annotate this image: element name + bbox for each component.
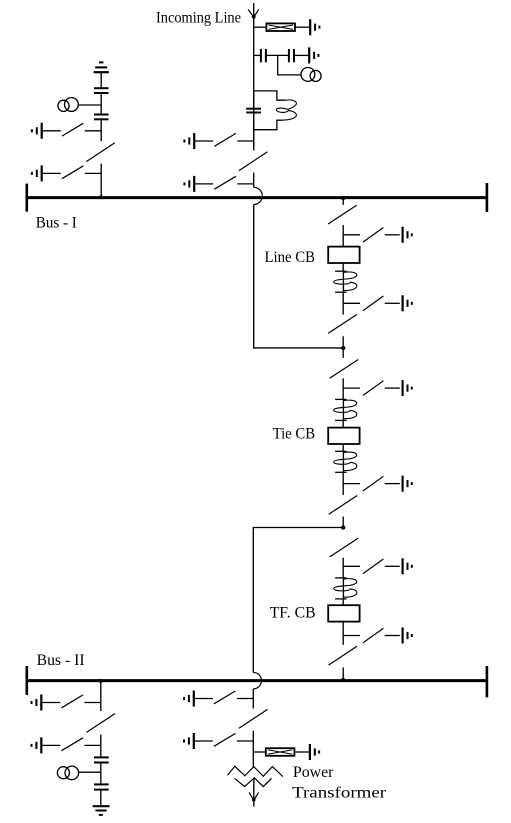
CT coil TF CB	[334, 578, 357, 599]
Bus-II right end cap	[486, 666, 489, 697]
wire CVT tap drop	[278, 55, 301, 75]
node Bus-II / TF chain	[341, 678, 345, 682]
capacitor left branch C2	[94, 115, 109, 120]
hop over Bus-I	[254, 187, 263, 204]
arrow to load head	[249, 792, 259, 801]
earth switch incoming upper	[184, 133, 253, 149]
coil of PLC unit	[276, 100, 296, 120]
wire chain to Bus-II	[342, 667, 344, 680]
wire to surge trap	[253, 751, 265, 753]
wire CT to TF CB	[342, 599, 344, 605]
earth switch Tie CB lower	[343, 476, 412, 492]
svg-text:TF. CB: TF. CB	[270, 604, 316, 621]
earth switch left-bottom upper	[32, 695, 101, 711]
wire left-bottom seg3	[100, 763, 102, 784]
wire chain above TF CT	[342, 558, 344, 578]
wire chain to TF junction	[342, 517, 344, 529]
ground top of left branch (up-facing)	[94, 62, 109, 72]
wire CT to lower part	[342, 292, 344, 314]
disconnector Line CB lower blade	[328, 315, 357, 334]
wire CB to CT	[342, 263, 344, 271]
capacitor coupling C2	[289, 49, 294, 62]
wire chain above upper CT	[342, 378, 344, 399]
wire incoming below disconnector	[253, 173, 255, 188]
busbar Bus-I	[27, 196, 487, 199]
wire to line trap	[254, 26, 267, 28]
wire feeder seg2	[252, 731, 254, 767]
capacitor coupling C1	[261, 49, 266, 62]
wire below TF CB	[342, 622, 344, 645]
wire CB to lower CT	[342, 444, 344, 451]
earth switch Tie CB upper	[343, 380, 412, 396]
earth switch TF CB lower	[343, 628, 412, 644]
capacitor on incoming line	[246, 109, 261, 113]
ground bottom of left branch (down-facing)	[93, 806, 110, 815]
wire chain stub below Bus-I	[342, 198, 344, 205]
disconnector TF CB upper blade	[330, 538, 359, 557]
disconnector Tie CB lower blade	[329, 496, 358, 515]
wire VT tap left	[78, 104, 101, 106]
Bus-II left end cap	[25, 666, 28, 695]
disconnector Tie CB upper blade	[330, 360, 359, 379]
wire left branch seg3	[100, 120, 102, 141]
wire CVT branch seg3	[294, 54, 309, 56]
node Bus-II / left branch	[99, 679, 103, 683]
disconnector feeder blade	[239, 709, 268, 728]
Bus-I left end cap	[25, 184, 28, 212]
circuit breaker TF CB	[328, 605, 359, 621]
earth switch feeder upper	[184, 691, 253, 707]
wire chain above CB	[342, 225, 344, 247]
arrow to load shaft	[253, 778, 255, 807]
disconnector left-bottom blade	[87, 714, 116, 733]
wire bypass vertical Bus-I to Line CB bottom	[254, 205, 344, 348]
CT coil Tie CB lower	[334, 451, 357, 472]
wire incoming line through PLC	[253, 91, 255, 150]
capacitor left-bottom C2	[94, 784, 109, 789]
earth switch left-top lower	[32, 165, 101, 181]
wire left-bottom seg1	[100, 680, 102, 711]
power transformer winding upper zigzag	[228, 766, 283, 776]
ground of bottom trap branch	[310, 744, 319, 760]
disconnector Line CB upper blade	[328, 205, 357, 224]
earth switch Line CB upper	[343, 227, 412, 243]
svg-text:Transformer: Transformer	[292, 785, 387, 802]
earth switch incoming lower	[184, 176, 253, 192]
circuit breaker Tie CB	[328, 428, 359, 444]
earth switch Line CB lower	[343, 295, 412, 311]
svg-text:Line CB: Line CB	[265, 249, 316, 266]
wire below lower CT	[342, 472, 344, 495]
voltage transformer circles (CVT EM unit)	[301, 68, 321, 82]
earth switch left-top upper	[32, 123, 101, 139]
circuit breaker Line CB	[328, 247, 359, 263]
wire incoming-line vertical upper	[253, 3, 255, 150]
power transformer winding lower zigzag	[235, 778, 272, 787]
voltage transformer circles left-top	[58, 98, 78, 112]
wire feeder seg1	[252, 689, 254, 709]
wire CVT branch seg2	[266, 54, 289, 56]
node Line CB / bypass junction	[341, 346, 345, 350]
voltage transformer circles left-bottom	[57, 766, 78, 780]
PLC tuning unit rectangle	[254, 91, 285, 130]
wire chain below junction	[342, 348, 344, 358]
node Bus-I / left branch	[99, 195, 103, 199]
disconnector TF CB lower blade	[329, 646, 358, 665]
svg-text:Tie CB: Tie CB	[273, 426, 316, 443]
earth switch TF CB upper	[343, 558, 412, 574]
wire left-bottom seg4	[100, 790, 102, 806]
ground of line trap branch	[310, 19, 319, 35]
ground of CVT branch	[309, 47, 318, 63]
capacitor left-bottom C1	[94, 757, 109, 762]
capacitor left branch C1	[94, 88, 109, 93]
svg-text:Bus - I: Bus - I	[36, 215, 77, 232]
wire trap to ground bottom	[294, 751, 310, 753]
line trap (rect with X)	[266, 23, 295, 31]
svg-text:Power: Power	[293, 764, 334, 781]
node Bus-I / Line CB chain	[341, 196, 345, 200]
Bus-I right end cap	[486, 183, 489, 212]
wire left branch seg1	[100, 72, 102, 87]
wire CT to CB	[342, 420, 344, 427]
line trap bottom (rect with X)	[266, 748, 295, 756]
wire left branch seg2	[100, 94, 102, 114]
svg-text:Incoming Line: Incoming Line	[156, 10, 241, 27]
wire left branch seg4	[100, 164, 102, 198]
svg-text:Bus - II: Bus - II	[37, 652, 85, 669]
disconnector incoming blade	[239, 152, 268, 171]
hop over Bus-II	[253, 672, 261, 688]
disconnector left-top blade	[86, 143, 115, 162]
CT coil Tie CB upper	[334, 399, 357, 420]
wire VT tap left-bottom	[78, 771, 100, 773]
wire trap to ground	[295, 26, 310, 28]
wire left-bottom seg2	[100, 735, 102, 757]
wire bypass to Bus-II hop	[253, 528, 343, 673]
wire CVT branch seg1	[254, 54, 261, 56]
arrow incoming line head	[248, 9, 259, 18]
busbar Bus-II	[27, 679, 487, 682]
CT coil Line CB	[334, 271, 357, 292]
earth switch feeder lower	[184, 733, 253, 749]
node Tie CB / TF bypass junction	[341, 525, 345, 529]
wire chain to junction	[342, 336, 344, 348]
earth switch left-bottom lower	[32, 737, 101, 753]
